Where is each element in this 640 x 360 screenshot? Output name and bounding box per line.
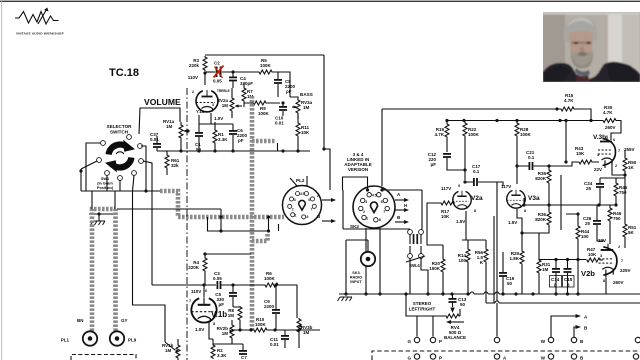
wire selector left drop (80, 169, 82, 191)
screened cable left pair (92, 209, 115, 331)
resistor R45 (614, 182, 618, 197)
wire HT bus 1 (382, 108, 560, 110)
wire cathode node (199, 113, 233, 124)
wire to SK2 feed (324, 149, 330, 190)
svg-text:VERSION: VERSION (348, 167, 368, 172)
capacitor C10 (279, 106, 287, 111)
wire RV1b wiper (165, 342, 175, 350)
wire y254 (205, 253, 251, 255)
svg-text:TREBLE: TREBLE (217, 89, 230, 93)
svg-text:SK2: SK2 (350, 224, 359, 229)
svg-text:100K: 100K (258, 111, 270, 116)
rotary selector SW1 (105, 140, 135, 172)
wire x132 down (133, 191, 166, 342)
potentiometer RV1b (176, 344, 180, 359)
capacitor C17 (473, 178, 478, 186)
svg-text:9: 9 (458, 184, 460, 188)
junction dot 146,191 (144, 189, 147, 192)
svg-text:100K: 100K (255, 322, 267, 327)
svg-text:2: 2 (192, 90, 194, 94)
svg-text:P: P (439, 339, 442, 344)
wire selector left 1 (86, 143, 101, 191)
wire C2 to C4 node (222, 71, 258, 73)
resistor R31 (537, 259, 541, 274)
svg-text:H: H (404, 203, 407, 208)
svg-text:0.1: 0.1 (473, 169, 480, 174)
resistor R51 (623, 223, 627, 238)
svg-text:25: 25 (585, 221, 591, 226)
wire v1b top bus y285 (152, 284, 216, 286)
svg-text:LEFT/RIGHT: LEFT/RIGHT (409, 307, 436, 312)
tube V3a (507, 190, 525, 208)
svg-text:V.1b: V.1b (211, 310, 227, 319)
wire R15 to corner (575, 109, 591, 121)
logo waveform vintage audio workshop (15, 8, 64, 36)
svg-text:260V: 260V (605, 125, 616, 130)
svg-text:5K: 5K (628, 230, 635, 235)
svg-text:3.3K: 3.3K (217, 353, 227, 358)
resistor R17 (440, 201, 455, 205)
wire selector to x132 (133, 175, 135, 191)
channel divider dash-dot line (186, 88, 188, 360)
resistor R14 (466, 248, 470, 263)
capacitor C12 (443, 153, 451, 158)
left border line (0, 0, 3, 360)
svg-text:Y1a: Y1a (196, 109, 205, 114)
node dot 81,171 (79, 169, 82, 172)
svg-text:2200: 2200 (264, 304, 275, 309)
svg-text:3: 3 (597, 153, 599, 157)
svg-text:PL2: PL2 (296, 178, 305, 183)
svg-text:100: 100 (458, 258, 466, 263)
node junction at 324,149 (322, 147, 325, 150)
dashed box bottom left (71, 355, 136, 360)
jack PL9 (110, 331, 124, 345)
svg-text:C2: C2 (214, 61, 220, 66)
dashed bottom panel (372, 351, 640, 360)
screened cable elbow PL2 to V1b (252, 234, 268, 241)
svg-text:1M: 1M (303, 330, 310, 335)
bottom row terminals (414, 354, 419, 359)
potentiometer RV2b (230, 324, 234, 339)
terminal right edge (635, 337, 640, 342)
svg-text:STEREO: STEREO (413, 301, 432, 306)
svg-text:GY: GY (121, 318, 128, 323)
capacitor C13 (449, 298, 457, 303)
capacitor C9 (272, 309, 280, 314)
socket SK2 (353, 186, 395, 228)
top border line (0, 1, 640, 2)
wire R6 right (279, 285, 297, 318)
shirt (576, 74, 590, 82)
svg-text:0.01: 0.01 (150, 137, 159, 142)
resistor R10 (253, 328, 268, 332)
wire selector left 2 (81, 161, 97, 169)
wire selector feeds to cables (92, 191, 115, 209)
svg-text:750: 750 (613, 216, 621, 221)
svg-text:1M: 1M (228, 313, 235, 318)
terminal G (414, 337, 419, 342)
capacitor C37 (153, 143, 161, 148)
terminal mid (494, 337, 499, 342)
resistor R47 (586, 258, 601, 262)
wire tone bottom bus (157, 150, 310, 152)
svg-text:10K: 10K (301, 130, 310, 135)
capacitor C19 (499, 272, 507, 277)
svg-text:220K: 220K (188, 265, 200, 270)
svg-text:PL1: PL1 (61, 338, 70, 343)
wire anode v1b (203, 285, 205, 297)
svg-text:BASS: BASS (300, 92, 313, 97)
svg-text:110V: 110V (188, 75, 198, 80)
capacitor C24 (596, 183, 604, 188)
resistor R50 (623, 157, 627, 172)
svg-text:0.05: 0.05 (213, 276, 222, 281)
svg-text:7: 7 (621, 259, 623, 263)
svg-text:10K: 10K (576, 151, 585, 156)
svg-text:820K: 820K (535, 176, 547, 181)
resistor R29 (520, 250, 524, 265)
resistor R43 (578, 160, 593, 164)
svg-text:SELECTOR: SELECTOR (107, 124, 133, 129)
svg-text:100K: 100K (520, 132, 532, 137)
resistor R61 (165, 154, 169, 169)
svg-text:8: 8 (213, 322, 215, 326)
resistor R28 (515, 122, 519, 137)
svg-text:1.0V: 1.0V (195, 327, 204, 332)
jack PL1 (83, 331, 97, 345)
terminal P (430, 337, 435, 342)
svg-text:pF: pF (286, 89, 292, 94)
svg-text:750: 750 (619, 190, 627, 195)
capacitor C5 (229, 292, 237, 297)
svg-text:1M: 1M (222, 331, 229, 336)
wire grid line (205, 71, 215, 73)
svg-text:pF: pF (238, 138, 244, 143)
hair (564, 17, 598, 42)
potentiometer RV1a (179, 124, 183, 139)
capacitor C11 (281, 335, 289, 340)
wire bus y191 (81, 190, 160, 192)
ground bus 2 (486, 302, 640, 304)
resistor R5 (258, 70, 273, 74)
resistor R8 (238, 306, 242, 321)
capacitor C26 (593, 220, 601, 225)
screened cable long vertical (250, 96, 255, 330)
svg-text:BALANCE: BALANCE (444, 335, 466, 340)
svg-text:6: 6 (613, 138, 615, 142)
svg-text:110V: 110V (191, 289, 201, 294)
svg-text:SW1: SW1 (101, 177, 109, 181)
svg-text:225V: 225V (620, 268, 631, 273)
resistor R6 (264, 283, 279, 287)
terminal B (571, 337, 576, 342)
wire R17 feed (427, 203, 443, 245)
resistor R46 (608, 207, 612, 222)
stereo box (406, 294, 445, 316)
svg-text:0.05: 0.05 (213, 79, 222, 84)
svg-text:INPUT: INPUT (350, 280, 362, 284)
potentiometer RV4 (445, 314, 460, 318)
svg-text:Position): Position) (97, 186, 114, 190)
wire selector right to 152 (143, 161, 152, 285)
svg-text:C7: C7 (241, 355, 247, 360)
arrow A out (551, 316, 578, 337)
node 110V (203, 71, 206, 74)
svg-text:0.1: 0.1 (528, 155, 535, 160)
ground symbol main (338, 297, 353, 301)
switch SW4 (406, 190, 425, 268)
screened cable selector to bus (160, 191, 178, 217)
wire R30 to V3b (611, 121, 621, 141)
svg-text:SWITCH: SWITCH (110, 130, 129, 135)
junction dots bottom bus (179, 149, 182, 152)
ground top left (91, 221, 106, 225)
capacitor C2 highlighted red (213, 61, 224, 84)
resistor R9 (252, 101, 267, 105)
wire P stem (432, 316, 434, 337)
svg-text:255V: 255V (624, 147, 635, 152)
face (569, 31, 593, 59)
wire V2b cathode to ground bus (605, 278, 607, 294)
wire selector right to 146 (141, 146, 146, 191)
wire SK2 bottom to ground bus (366, 228, 380, 294)
svg-text:SW.4: SW.4 (409, 263, 420, 268)
potentiometer RV3b (297, 318, 301, 333)
socket PL2 (282, 185, 321, 224)
wire sk2 left drop (342, 190, 344, 229)
tube V3b (598, 136, 616, 169)
webcam overlay (543, 12, 640, 82)
svg-text:25: 25 (586, 186, 592, 191)
wire sw4 feed (343, 228, 406, 230)
svg-text:330pF: 330pF (240, 81, 253, 86)
svg-text:3.3K: 3.3K (218, 137, 228, 142)
capacitor C6 (229, 130, 237, 135)
svg-text:pF: pF (431, 162, 437, 167)
svg-text:4.7K: 4.7K (434, 132, 444, 137)
tube V1b (191, 297, 216, 322)
svg-text:RADIO: RADIO (350, 276, 362, 280)
svg-text:50: 50 (507, 281, 513, 286)
wire radio line y209 (117, 208, 221, 210)
capacitor C15 (564, 268, 572, 273)
resistor R20 (441, 258, 445, 273)
resistor R19 (445, 123, 449, 138)
resistor R1 (213, 129, 217, 144)
screened cable stub treble out (252, 139, 276, 144)
svg-text:100K: 100K (260, 63, 272, 68)
svg-text:(In Gram: (In Gram (97, 182, 113, 186)
svg-text:117V: 117V (441, 186, 451, 191)
svg-text:220k: 220k (189, 63, 200, 68)
potentiometer RV2a (230, 97, 234, 112)
beard (571, 49, 593, 68)
wire V2a stage vertical (493, 216, 495, 303)
wire pickup return y231 (208, 209, 279, 231)
svg-text:0.01: 0.01 (270, 342, 279, 347)
svg-text:6: 6 (205, 289, 207, 293)
svg-text:SK3: SK3 (352, 271, 359, 275)
screened cable to PL2 (178, 215, 284, 220)
crossover hops (470, 292, 499, 294)
wire C3 to R6 (222, 284, 265, 286)
wire R5 to bass corner (273, 72, 290, 97)
wire c14 c15 feed (560, 175, 562, 230)
capacitor C21 (529, 162, 534, 170)
svg-text:pF: pF (219, 302, 225, 307)
wire bass return drop (277, 143, 279, 151)
potentiometer RV3a (296, 99, 300, 114)
svg-text:3: 3 (600, 254, 602, 258)
svg-text:820K: 820K (535, 217, 547, 222)
anode bus V3a to output (524, 198, 616, 205)
capacitor C14 (552, 268, 560, 273)
svg-text:260V: 260V (613, 280, 624, 285)
svg-text:100K: 100K (468, 132, 480, 137)
svg-text:G: G (407, 339, 411, 344)
resistor R15 (560, 107, 575, 111)
jack SK3 (361, 252, 375, 266)
resistor R30 (602, 119, 617, 123)
wire bus2 drop at 447 (446, 121, 448, 124)
wire V3a cathode (517, 209, 522, 250)
resistor R7 (242, 87, 246, 102)
svg-text:7: 7 (189, 299, 191, 303)
wire HT bus 1 drop left (381, 109, 383, 186)
svg-text:32k: 32k (171, 163, 179, 168)
wire down to G term mid (496, 303, 498, 337)
svg-text:4.7K: 4.7K (564, 98, 574, 103)
svg-text:1.8K: 1.8K (509, 256, 519, 261)
svg-text:TC.18: TC.18 (109, 67, 139, 79)
wire grid return long vertical (496, 182, 498, 301)
svg-text:22V: 22V (594, 167, 602, 172)
wire heater across (382, 189, 422, 191)
svg-text:VOLUME: VOLUME (144, 97, 181, 107)
svg-text:100: 100 (581, 234, 589, 239)
ground bus (339, 293, 640, 295)
svg-text:22V: 22V (598, 238, 606, 243)
svg-text:1K: 1K (628, 165, 635, 170)
wire v1b lower bus y330 (232, 329, 320, 331)
tube V1a (196, 90, 218, 112)
svg-text:1M: 1M (166, 124, 173, 129)
bracket wire linked pins (343, 177, 368, 190)
capacitor C3 (217, 281, 222, 289)
svg-text:1M: 1M (222, 103, 229, 108)
svg-text:8: 8 (524, 209, 526, 213)
svg-text:V3a: V3a (528, 195, 540, 202)
svg-text:50: 50 (460, 302, 466, 307)
wire B+ bus top (205, 54, 324, 56)
svg-text:3: 3 (212, 103, 214, 107)
tube V2b (599, 244, 617, 278)
svg-text:100K: 100K (264, 276, 276, 281)
resistor R36 (547, 211, 551, 226)
resistor R3 (203, 56, 207, 71)
svg-text:C14: C14 (551, 277, 560, 282)
wire HT bus 2 (447, 120, 602, 122)
resistor R2 (211, 344, 215, 359)
svg-text:1.0V: 1.0V (214, 116, 223, 121)
svg-text:V2a: V2a (471, 195, 483, 202)
svg-text:10K: 10K (441, 214, 450, 219)
resistor R44 (576, 225, 580, 240)
svg-text:V.3b: V.3b (593, 134, 606, 141)
wire pins PL2 top (290, 176, 307, 186)
selector contact pins (101, 141, 106, 146)
tube V2a (453, 191, 471, 209)
terminal W (548, 337, 553, 342)
wire sw4 to ground (410, 258, 428, 294)
svg-text:BN: BN (77, 318, 84, 323)
capacitor C8 (274, 79, 282, 84)
svg-text:PL9: PL9 (128, 338, 137, 343)
svg-text:2: 2 (618, 245, 620, 249)
svg-text:1.5V: 1.5V (508, 220, 517, 225)
resistor R35 (547, 169, 551, 184)
svg-text:150K: 150K (429, 266, 441, 271)
screened cable right of pair (113, 209, 118, 331)
svg-text:7: 7 (618, 149, 620, 153)
wire V2a cathode (462, 211, 486, 240)
svg-text:117V: 117V (501, 184, 511, 189)
wire G stem (416, 316, 418, 337)
resistor R22 (463, 122, 467, 137)
svg-text:C15: C15 (564, 277, 573, 282)
resistor R11 (296, 122, 300, 137)
svg-text:1.5V: 1.5V (456, 219, 465, 224)
wire anode V1a (204, 73, 206, 85)
svg-text:V2b: V2b (581, 269, 595, 278)
svg-text:0.01: 0.01 (275, 121, 284, 126)
svg-text:P: P (439, 356, 442, 360)
svg-text:1M: 1M (542, 267, 549, 272)
resistor R4 (203, 257, 207, 272)
node C4 top (231, 70, 234, 73)
resistor R56 (484, 248, 488, 263)
capacitor C4 (229, 77, 237, 82)
svg-text:8: 8 (474, 209, 476, 213)
svg-text:8: 8 (603, 279, 605, 283)
svg-text:1M: 1M (165, 348, 172, 353)
wire volume to RV1a (139, 108, 180, 134)
wire B+ drop right (323, 55, 325, 149)
svg-text:10K: 10K (588, 252, 597, 257)
svg-text:4.7K: 4.7K (603, 110, 613, 115)
svg-text:1M: 1M (303, 105, 310, 110)
svg-text:G: G (407, 356, 411, 360)
wire selector bottom contacts (107, 175, 120, 191)
capacitor C7 (239, 350, 247, 355)
capacitor C1 (195, 132, 203, 137)
svg-text:2: 2 (615, 164, 617, 168)
node 22V rail junction (623, 173, 626, 176)
svg-text:VINTAGE AUDIO WORKSHOP: VINTAGE AUDIO WORKSHOP (16, 32, 64, 36)
jacket body (543, 62, 640, 82)
arrow B out (574, 327, 578, 337)
